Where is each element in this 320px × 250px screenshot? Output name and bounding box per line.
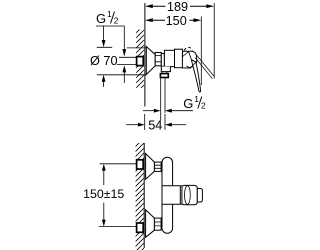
svg-text:150±15: 150±15 bbox=[83, 187, 124, 201]
dimension Ø70 arrows bbox=[102, 26, 106, 87]
svg-text:2: 2 bbox=[201, 101, 206, 111]
leader arrow of G 1/2 pointing to union pipe top bbox=[122, 26, 126, 57]
escutcheon cone (side view) bbox=[146, 47, 155, 75]
wall surface line (side view) bbox=[144, 3, 146, 106]
outlet elbow below body bbox=[161, 67, 170, 72]
dimension 150±15 bbox=[99, 164, 137, 227]
svg-text:189: 189 bbox=[167, 0, 188, 14]
extension line for 189 (handle tip) bbox=[213, 3, 215, 79]
svg-text:Ø 70: Ø 70 bbox=[90, 54, 118, 68]
lower escutcheon cone (front view) bbox=[146, 210, 155, 238]
Ø70 extension line bottom bbox=[97, 74, 147, 76]
upper in-wall union square (front view) bbox=[137, 160, 144, 169]
union nut (side view) bbox=[155, 53, 161, 66]
hose union nut on outlet bbox=[160, 74, 168, 78]
collar ring (side view) bbox=[161, 54, 164, 67]
lever blade underside vee bbox=[186, 62, 196, 68]
lever blade (side view, hanging down) bbox=[191, 60, 200, 92]
raised lever alternate position (thin V) bbox=[195, 55, 214, 78]
lever blade root (edge-on) bbox=[183, 52, 192, 60]
G1/2 pinch arrows at outlet pipe bbox=[143, 109, 193, 113]
dimension 54 bbox=[126, 114, 186, 130]
G 1/2 pipe lower arrow (pointing up to pipe bottom) bbox=[122, 65, 126, 83]
extension line for 150 bbox=[200, 17, 202, 86]
supply pipe in wall bbox=[117, 57, 137, 64]
lower union nut (front view) bbox=[154, 218, 161, 230]
svg-text:150: 150 bbox=[166, 14, 187, 28]
handle cap dome (front view) bbox=[182, 185, 197, 204]
wall hatching (side view) bbox=[130, 20, 144, 104]
dimension 189 bbox=[145, 4, 214, 8]
upper escutcheon cone (front view) bbox=[146, 154, 155, 180]
handle base (front view, occludes body edge) bbox=[162, 186, 182, 205]
lever hub block (side view) bbox=[182, 51, 196, 68]
wall surface line (front view) bbox=[143, 143, 145, 248]
upper union nut (front view) bbox=[154, 162, 161, 171]
outlet neck bbox=[162, 72, 167, 74]
svg-text:2: 2 bbox=[114, 16, 119, 26]
lower in-wall union square (front view) bbox=[137, 223, 144, 232]
label G 1/2 (top, inlet thread) bbox=[96, 9, 119, 26]
outlet pipe (G1/2 thread) going down bbox=[161, 78, 165, 121]
cartridge cap ring (side view) bbox=[175, 49, 183, 67]
dimension 150 bbox=[145, 18, 201, 22]
mixer body stadium (front view) bbox=[162, 157, 173, 233]
dome contour lens bbox=[185, 186, 191, 205]
svg-text:G: G bbox=[183, 96, 193, 111]
svg-text:G: G bbox=[96, 11, 106, 26]
in-wall union square (side view) bbox=[137, 57, 144, 66]
leader underline of G 1/2 bbox=[96, 25, 124, 27]
svg-text:1: 1 bbox=[194, 94, 199, 104]
Ø70 extension line top bbox=[97, 46, 147, 49]
wall hatching (front view) bbox=[130, 133, 144, 250]
handle nub (front view) bbox=[197, 189, 202, 203]
mixer body (side view) bbox=[164, 50, 174, 66]
label G 1/2 (bottom, shower hose thread) bbox=[183, 94, 206, 111]
svg-text:1: 1 bbox=[107, 9, 112, 19]
svg-text:54: 54 bbox=[148, 118, 162, 132]
lever travel dashed arc bbox=[184, 47, 192, 50]
extension of outlet pipe right edge for 54 dim bbox=[164, 114, 166, 130]
